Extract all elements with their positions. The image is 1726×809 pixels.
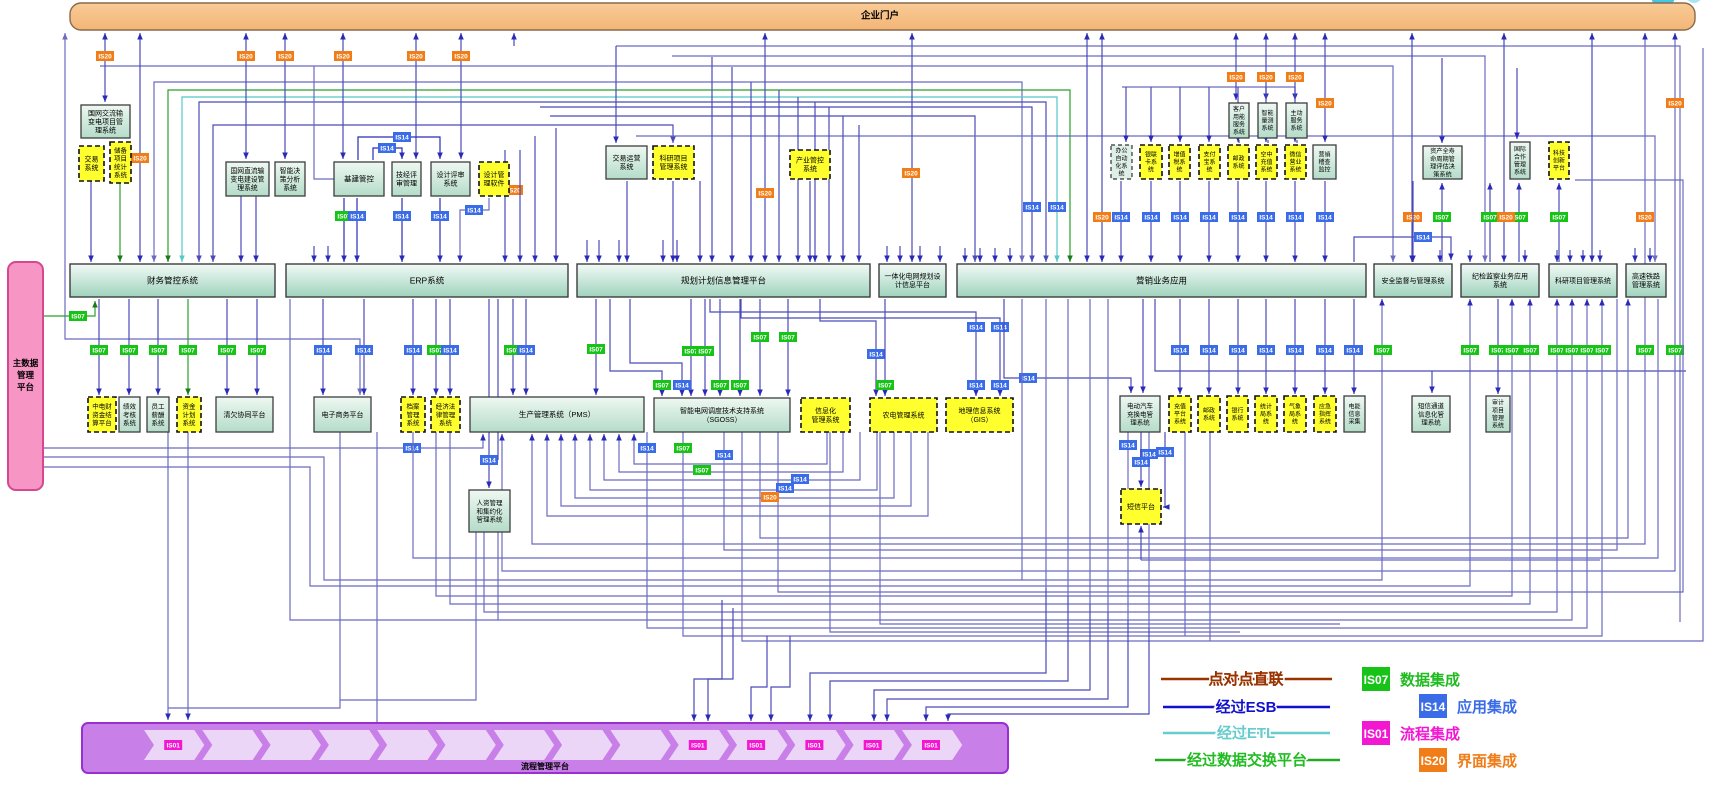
- chip IS14: [315, 346, 332, 355]
- wire: [213, 125, 673, 262]
- svg-text:系统: 系统: [283, 183, 297, 192]
- svg-text:系统: 系统: [439, 418, 453, 427]
- svg-text:系统: 系统: [85, 163, 99, 172]
- box 国际合作管理系统: [1510, 142, 1530, 179]
- svg-text:IS14: IS14: [1025, 204, 1039, 211]
- svg-text:IS07: IS07: [151, 347, 165, 354]
- svg-text:IS14: IS14: [395, 134, 409, 141]
- wire: [1265, 33, 1267, 100]
- wire: [926, 620, 1128, 721]
- chip IS20: [97, 52, 114, 61]
- svg-text:IS14: IS14: [1288, 214, 1302, 221]
- svg-text:邮政: 邮政: [1203, 406, 1215, 414]
- cyan circle logo: [1651, 0, 1675, 8]
- wire: [1294, 87, 1296, 142]
- chip IS14: [1317, 346, 1334, 355]
- svg-text:指挥: 指挥: [1319, 410, 1331, 418]
- wire: [704, 299, 706, 396]
- chip IS20: [1404, 213, 1421, 222]
- svg-text:绩效: 绩效: [123, 402, 137, 411]
- chip IS07: [1564, 346, 1581, 355]
- svg-text:客户: 客户: [1233, 105, 1245, 113]
- chip IS07: [180, 346, 197, 355]
- box 国网直流输变电建设管理系统: [226, 162, 269, 196]
- svg-text:资金结: 资金结: [92, 410, 112, 419]
- wire: [1267, 140, 1269, 143]
- chip IS14: [868, 350, 885, 359]
- legend IS20 界面集成: [1419, 748, 1517, 772]
- chip IS20: [1258, 73, 1275, 82]
- svg-text:IS20: IS20: [98, 53, 112, 60]
- wire: [1556, 250, 1558, 262]
- chip IS07: [712, 381, 729, 390]
- chip IS01: [806, 741, 823, 750]
- wire: [1179, 181, 1181, 262]
- chip IS14: [1024, 203, 1041, 212]
- chip IS20: [757, 189, 774, 198]
- legend 经过数据交换平台: [1155, 751, 1340, 769]
- wire: [284, 33, 286, 159]
- wire: [1009, 248, 1011, 262]
- box 交易系统: [79, 146, 104, 181]
- chip IS20: [277, 52, 294, 61]
- svg-text:IS14: IS14: [1231, 347, 1245, 354]
- chip IS07: [780, 333, 797, 342]
- box 电动汽车充换电管理系统: [1120, 396, 1160, 432]
- svg-text:IS14: IS14: [1421, 700, 1446, 714]
- svg-text:系统: 系统: [123, 418, 137, 427]
- box 短信平台: [1121, 489, 1161, 524]
- svg-text:考核: 考核: [123, 410, 137, 419]
- wire: [771, 636, 790, 721]
- svg-text:设计管: 设计管: [484, 170, 505, 179]
- wire: [711, 57, 713, 262]
- wire: [1067, 299, 1069, 596]
- box 员工薪酬系统: [147, 397, 169, 432]
- wire: [742, 48, 1703, 641]
- svg-text:电子商务平台: 电子商务平台: [322, 410, 364, 419]
- svg-text:变电项目管: 变电项目管: [88, 117, 123, 126]
- wire: [694, 600, 722, 721]
- wire: [964, 248, 966, 262]
- svg-text:IS07: IS07: [1638, 347, 1652, 354]
- box 银联卡系统: [1140, 145, 1162, 179]
- svg-text:IS20: IS20: [278, 53, 292, 60]
- chip IS14: [1133, 458, 1150, 467]
- svg-text:IS14: IS14: [482, 457, 496, 464]
- chip IS14: [1201, 346, 1218, 355]
- wire: [1179, 299, 1181, 394]
- box 充值平台系统: [1169, 396, 1191, 432]
- wire: [1441, 183, 1443, 262]
- chip IS01: [864, 741, 881, 750]
- wire: [167, 432, 169, 720]
- legend 经过ETL: [1163, 724, 1330, 742]
- wire: [1296, 140, 1298, 143]
- svg-text:IS14: IS14: [1134, 459, 1148, 466]
- svg-text:系统: 系统: [183, 418, 197, 427]
- wire: [1569, 250, 1571, 262]
- svg-text:IS07: IS07: [1364, 673, 1389, 687]
- wire: [1120, 181, 1122, 262]
- box 清欠协同平台: [216, 397, 273, 432]
- svg-text:系统: 系统: [1261, 124, 1273, 132]
- svg-text:合作: 合作: [1514, 153, 1526, 161]
- wire: [948, 628, 1149, 721]
- svg-text:系统: 系统: [1232, 162, 1244, 170]
- box 绩效考核系统: [119, 397, 140, 432]
- wire: [1497, 299, 1499, 394]
- svg-text:IS14: IS14: [467, 207, 481, 214]
- svg-text:IS07: IS07: [1552, 214, 1566, 221]
- wire: [842, 116, 844, 262]
- chip IS14: [1258, 213, 1275, 222]
- chip IS07: [1511, 213, 1528, 222]
- wire: [358, 137, 440, 160]
- wire: [880, 432, 1340, 624]
- chip IS20: [1637, 213, 1654, 222]
- chip IS07: [1434, 213, 1451, 222]
- wire: [1150, 181, 1152, 262]
- svg-text:IS14: IS14: [1202, 347, 1216, 354]
- wire: [626, 181, 628, 262]
- svg-text:IS20: IS20: [454, 53, 468, 60]
- wire: [1209, 432, 1211, 641]
- wire: [168, 90, 1070, 262]
- wire: [1353, 299, 1355, 394]
- box 智能决策分析系统: [275, 162, 305, 196]
- wire: [874, 604, 1090, 721]
- svg-text:中电财: 中电财: [92, 402, 112, 411]
- wire: [43, 299, 1382, 580]
- svg-text:系统: 系统: [1514, 168, 1526, 176]
- chip IS01: [923, 741, 940, 750]
- svg-text:IS20: IS20: [1499, 214, 1513, 221]
- wire: [449, 299, 451, 395]
- wire: [373, 148, 402, 160]
- box 技经评审管理: [392, 162, 421, 196]
- wire: [618, 240, 620, 262]
- svg-text:IS14: IS14: [519, 347, 533, 354]
- svg-text:IS07: IS07: [1376, 347, 1390, 354]
- svg-text:系统: 系统: [1289, 166, 1301, 174]
- svg-text:IS07: IS07: [695, 467, 709, 474]
- wire: [586, 240, 588, 262]
- wire: [884, 299, 886, 396]
- svg-text:IS01: IS01: [749, 742, 763, 749]
- svg-text:自动: 自动: [1115, 154, 1127, 162]
- chip IS14: [777, 484, 794, 493]
- svg-text:IS20: IS20: [409, 53, 423, 60]
- chip IS14: [1415, 233, 1432, 242]
- svg-text:安全监督与管理系统: 安全监督与管理系统: [1382, 276, 1445, 285]
- svg-text:IS14: IS14: [993, 324, 1007, 331]
- svg-text:电能: 电能: [1348, 403, 1360, 411]
- chip IS14: [356, 346, 373, 355]
- wire: [647, 299, 1587, 628]
- svg-text:主数据: 主数据: [13, 358, 39, 368]
- svg-text:系统: 系统: [803, 164, 817, 173]
- wire: [1208, 181, 1210, 262]
- box 地理信息系统（GIS）: [946, 398, 1013, 432]
- wire: [1324, 299, 1326, 394]
- chip IS14: [716, 451, 733, 460]
- svg-text:策分析: 策分析: [280, 174, 301, 183]
- svg-text:IS07: IS07: [1580, 347, 1594, 354]
- svg-text:服务: 服务: [1290, 117, 1302, 125]
- svg-text:统: 统: [1148, 166, 1154, 174]
- svg-text:IS20: IS20: [239, 53, 253, 60]
- svg-text:IS07: IS07: [753, 334, 767, 341]
- svg-text:系统: 系统: [1203, 414, 1215, 422]
- wire: [168, 432, 340, 708]
- svg-text:信息: 信息: [1348, 410, 1360, 418]
- wire: [828, 107, 830, 262]
- box 主数据管理平台: [8, 262, 43, 490]
- box 科研项目管理系统: [653, 146, 694, 179]
- box 电能信息采集: [1344, 396, 1365, 432]
- svg-text:IS20: IS20: [758, 190, 772, 197]
- chip IS14: [1317, 213, 1334, 222]
- wire: [1265, 181, 1267, 262]
- chip IS07: [249, 346, 266, 355]
- svg-text:短信平台: 短信平台: [1127, 502, 1155, 511]
- svg-text:IS07: IS07: [220, 347, 234, 354]
- wire: [636, 136, 1655, 262]
- wire: [919, 246, 921, 262]
- svg-text:ERP系统: ERP系统: [410, 276, 445, 286]
- wire: [724, 299, 1617, 550]
- svg-text:IS14: IS14: [1318, 347, 1332, 354]
- svg-text:系统: 系统: [1290, 124, 1302, 132]
- svg-text:IS14: IS14: [675, 382, 689, 389]
- svg-text:国际: 国际: [1514, 145, 1526, 153]
- box 统计局系统: [1255, 396, 1277, 432]
- wire: [616, 46, 1680, 622]
- svg-text:经过ETL: 经过ETL: [1217, 724, 1275, 742]
- svg-text:应急: 应急: [1319, 403, 1331, 411]
- svg-text:一体化电网规划设: 一体化电网规划设: [885, 272, 941, 281]
- svg-text:支付: 支付: [1203, 151, 1215, 159]
- svg-text:IS14: IS14: [1288, 347, 1302, 354]
- svg-text:充换电管: 充换电管: [1127, 409, 1154, 418]
- wire: [561, 432, 911, 506]
- wire: [575, 432, 894, 498]
- svg-text:IS14: IS14: [1050, 204, 1064, 211]
- wire: [604, 432, 860, 480]
- wire: [1122, 86, 1295, 88]
- wire: [504, 150, 506, 262]
- svg-text:信息化: 信息化: [815, 406, 836, 415]
- svg-text:统: 统: [1263, 418, 1269, 426]
- wire: [1411, 33, 1413, 262]
- wire: [710, 299, 976, 396]
- wire: [413, 299, 1658, 558]
- svg-text:营业: 营业: [1289, 158, 1301, 166]
- svg-text:量测: 量测: [1261, 117, 1273, 125]
- wire: [590, 432, 877, 490]
- svg-text:科研项目管理系统: 科研项目管理系统: [1555, 276, 1611, 285]
- wire: [157, 299, 159, 395]
- box 气象局系统: [1284, 396, 1306, 432]
- wire: [858, 125, 860, 262]
- chip IS07: [1549, 346, 1566, 355]
- chip IS07: [1375, 346, 1392, 355]
- chip IS20: [408, 52, 425, 61]
- wire: [255, 181, 257, 262]
- box 邮政系统: [1198, 396, 1220, 432]
- svg-text:交易运营: 交易运营: [613, 154, 641, 163]
- wire: [778, 180, 1683, 592]
- chip IS14: [1172, 346, 1189, 355]
- svg-text:点对点直联: 点对点直联: [1208, 670, 1284, 688]
- svg-text:IS07: IS07: [698, 348, 712, 355]
- svg-text:IS07: IS07: [1435, 214, 1449, 221]
- svg-text:IS14: IS14: [350, 213, 364, 220]
- wire: [1354, 237, 1451, 262]
- svg-text:计信息平台: 计信息平台: [895, 280, 930, 289]
- wire: [119, 181, 121, 262]
- chip IS14: [379, 144, 396, 153]
- svg-text:管理: 管理: [17, 370, 35, 380]
- wire: [43, 299, 1470, 586]
- wire: [1265, 299, 1267, 394]
- chip IS20: [1405, 213, 1422, 222]
- wire: [154, 82, 1022, 262]
- svg-text:经过ESB: 经过ESB: [1216, 698, 1277, 716]
- box 储备项目统计系统: [110, 142, 131, 183]
- wire: [750, 82, 752, 262]
- chip IS14: [1258, 346, 1275, 355]
- wire: [540, 107, 1032, 262]
- wire: [497, 299, 499, 460]
- wire: [1324, 181, 1326, 262]
- svg-text:IS20: IS20: [1421, 754, 1446, 768]
- box 营销稽查监控: [1313, 145, 1336, 179]
- wire: [187, 432, 189, 720]
- svg-text:技经评: 技经评: [396, 170, 417, 179]
- wire: [683, 299, 1602, 636]
- wire: [182, 97, 1057, 262]
- wire: [547, 432, 928, 516]
- svg-text:界面集成: 界面集成: [1457, 752, 1517, 770]
- wire: [1265, 87, 1267, 142]
- chip IS20: [762, 493, 779, 502]
- chip IS07: [675, 444, 692, 453]
- chip IS07: [1504, 346, 1521, 355]
- box 邮政系统: [1228, 145, 1249, 179]
- box 企业门户: [70, 3, 1695, 30]
- svg-text:IS14: IS14: [1173, 214, 1187, 221]
- chip IS14: [968, 323, 985, 332]
- wire: [1150, 87, 1152, 142]
- box 增值税系统: [1169, 145, 1190, 179]
- svg-text:IS14: IS14: [380, 145, 394, 152]
- wire: [519, 150, 521, 262]
- svg-text:IS14: IS14: [869, 351, 883, 358]
- wire: [555, 128, 557, 262]
- svg-text:管理系统: 管理系统: [477, 514, 504, 523]
- chip IS14: [992, 323, 1009, 332]
- chip IS14: [1230, 346, 1247, 355]
- wire: [886, 246, 888, 262]
- wire: [699, 181, 701, 262]
- svg-text:档案: 档案: [407, 402, 421, 411]
- svg-text:IS07: IS07: [589, 346, 603, 353]
- svg-text:算平台: 算平台: [92, 418, 112, 427]
- chip IS14: [404, 444, 421, 453]
- svg-text:IS14: IS14: [1121, 442, 1135, 449]
- chip IS01: [748, 741, 765, 750]
- svg-text:IS14: IS14: [993, 382, 1007, 389]
- wire: [1591, 33, 1593, 262]
- chip IS07: [654, 381, 671, 390]
- wire: [787, 299, 789, 396]
- svg-text:IS14: IS14: [406, 347, 420, 354]
- chip IS14: [432, 212, 449, 221]
- wire: [245, 33, 247, 159]
- wire: [1582, 250, 1584, 262]
- box 农电管理系统: [870, 398, 937, 432]
- wire: [887, 612, 1108, 721]
- wire: [550, 116, 975, 262]
- chip IS07: [70, 312, 87, 321]
- svg-text:统: 统: [1118, 170, 1124, 178]
- chip IS14: [1287, 346, 1304, 355]
- svg-text:局系: 局系: [1260, 410, 1272, 418]
- chip IS20: [453, 52, 470, 61]
- wire: [1294, 181, 1296, 262]
- wire: [1089, 299, 1091, 604]
- svg-text:短信通道: 短信通道: [1418, 401, 1445, 410]
- svg-text:策系统: 策系统: [1433, 170, 1452, 178]
- svg-text:计划: 计划: [183, 410, 196, 419]
- chip IS07: [732, 381, 749, 390]
- chip IS07: [505, 346, 522, 355]
- wire: [1599, 250, 1601, 262]
- svg-text:统: 统: [1176, 166, 1182, 174]
- svg-text:IS20: IS20: [1638, 214, 1652, 221]
- svg-text:系统: 系统: [407, 418, 421, 427]
- wire: [979, 248, 981, 262]
- chip IS14: [1201, 213, 1218, 222]
- box 电子商务平台: [314, 397, 371, 432]
- svg-text:管理: 管理: [1514, 160, 1526, 168]
- wire: [322, 299, 324, 395]
- chip IS07: [336, 212, 353, 221]
- svg-text:流程管理平台: 流程管理平台: [521, 761, 569, 771]
- wire: [820, 299, 876, 396]
- chip IS07: [219, 346, 236, 355]
- svg-text:办公: 办公: [1115, 147, 1127, 155]
- svg-text:营销业务应用: 营销业务应用: [1136, 276, 1187, 286]
- wire: [512, 299, 514, 395]
- wire: [256, 299, 258, 395]
- chip IS07: [91, 346, 108, 355]
- chip IS07: [1490, 346, 1507, 355]
- svg-text:应用集成: 应用集成: [1457, 698, 1517, 716]
- wire: [415, 33, 417, 159]
- chip IS14: [968, 381, 985, 390]
- wire: [376, 432, 378, 722]
- chip IS14: [1287, 213, 1304, 222]
- wire: [1469, 250, 1471, 262]
- wire: [1004, 299, 1131, 393]
- chip IS14: [1346, 346, 1363, 355]
- chip IS20: [903, 169, 920, 178]
- svg-text:设计评审: 设计评审: [437, 170, 465, 179]
- chip IS14: [1230, 213, 1247, 222]
